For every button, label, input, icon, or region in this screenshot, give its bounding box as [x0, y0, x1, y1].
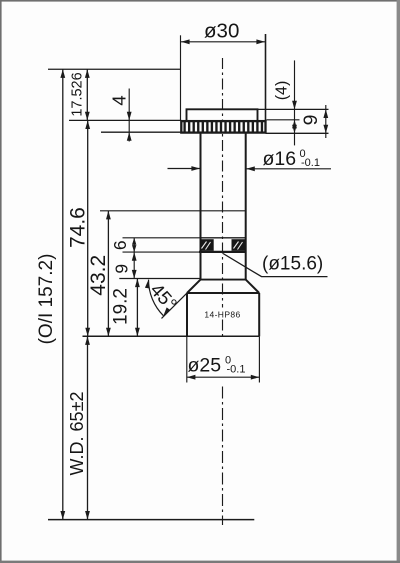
front cylinder left wall [186, 293, 188, 336]
svg-text:43.2: 43.2 [87, 255, 110, 296]
dim line 19.2 [136, 279, 138, 337]
svg-text:4: 4 [108, 95, 129, 105]
dim line dia16 right leader [246, 168, 331, 170]
dim line 6 left [133, 238, 135, 252]
dim ext line glass-top left [123, 237, 201, 239]
svg-text:17.526: 17.526 [70, 72, 86, 116]
barrel left wall [200, 133, 202, 281]
svg-text:(4): (4) [273, 81, 290, 101]
dim ext line cap-top to right [258, 108, 329, 110]
lens element top line [201, 237, 246, 239]
svg-text:(O/I 157.2): (O/I 157.2) [36, 254, 57, 345]
svg-text:ø16: ø16 [263, 148, 297, 170]
svg-text:(ø15.6): (ø15.6) [262, 254, 323, 275]
svg-text:74.6: 74.6 [66, 207, 89, 248]
dim line (O/I 157.2) [62, 69, 64, 519]
barrel internal line [201, 210, 246, 212]
dim line dia16 left arrow [168, 168, 201, 170]
dim ext line dia30 right [265, 34, 267, 133]
knurl ticks [185, 122, 262, 133]
object plane line [48, 519, 254, 521]
dim ext line knurl-top left [69, 119, 181, 121]
lens element right glass section [232, 239, 246, 251]
dim ext line knurl-top right [267, 119, 300, 121]
cone right slope [246, 280, 260, 293]
dim line 4 left [128, 89, 130, 142]
front cylinder bottom line / W.D. extension [83, 335, 260, 337]
svg-text:6: 6 [110, 240, 130, 250]
lens element left glass section [200, 239, 214, 251]
leader line (dia15.6) [223, 254, 328, 277]
dim ext line dia30 left [180, 35, 182, 121]
svg-text:ø25: ø25 [188, 355, 222, 377]
front cylinder top line [187, 292, 259, 294]
dim ext line knurl-bottom to right [266, 132, 329, 134]
dim line 74.6 [87, 120, 89, 336]
svg-text:9: 9 [300, 115, 322, 126]
dim line W.D. 65 [87, 336, 89, 519]
lens cap outline [187, 109, 258, 121]
knurled focus ring outline [181, 121, 265, 133]
centerline (optical axis) [222, 58, 224, 308]
svg-text:9: 9 [112, 264, 132, 274]
svg-text:19.2: 19.2 [110, 288, 131, 325]
dim line dia30 [181, 41, 265, 43]
dim ext line dia25 right [258, 336, 260, 382]
dim ext line glass-bottom left [123, 251, 200, 253]
dim line 17.526 [86, 69, 88, 120]
svg-text:-0.1: -0.1 [227, 364, 246, 376]
dim ext line dia25 left [186, 336, 188, 382]
dim line dia25 [187, 376, 260, 378]
border frame left [0, 0, 2, 563]
45deg arc [148, 280, 163, 316]
dim ext line barrel internal left [100, 210, 201, 212]
shoulder line (cone top) [201, 279, 246, 281]
cone left slope [187, 280, 201, 293]
dim line (4) [294, 60, 296, 145]
image plane reference line [48, 68, 181, 70]
svg-text:14-HP86: 14-HP86 [204, 310, 240, 320]
front cylinder right wall [258, 293, 260, 336]
svg-text:-0.1: -0.1 [301, 157, 320, 169]
border frame top [0, 0, 400, 2]
dim line 43.2 [107, 211, 109, 336]
border frame bottom [0, 561, 400, 563]
dim line 9 right [325, 105, 327, 138]
dim ext line shoulder left [119, 278, 200, 280]
border frame right [397, 0, 400, 563]
svg-text:W.D. 65±2: W.D. 65±2 [67, 392, 87, 476]
dim line 9 left [133, 252, 135, 278]
lens element bottom line [199, 251, 246, 253]
45deg slope extension line [162, 280, 201, 319]
dim ext line knurl-bottom left [101, 131, 181, 133]
barrel right wall [245, 133, 247, 281]
svg-text:ø30: ø30 [204, 20, 239, 43]
